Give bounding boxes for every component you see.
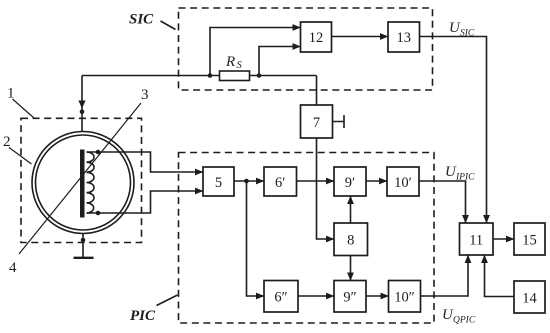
svg-text:9″: 9″ — [343, 290, 356, 306]
svg-text:1: 1 — [7, 86, 15, 102]
svg-text:2: 2 — [3, 134, 11, 150]
svg-text:5: 5 — [215, 175, 222, 191]
svg-text:11: 11 — [469, 233, 483, 249]
svg-text:3: 3 — [141, 87, 149, 103]
svg-text:12: 12 — [309, 30, 324, 46]
svg-text:QPIC: QPIC — [453, 316, 476, 326]
svg-text:SIC: SIC — [129, 12, 154, 28]
svg-text:PIC: PIC — [130, 308, 156, 324]
svg-text:14: 14 — [522, 291, 537, 307]
svg-text:6″: 6″ — [274, 290, 287, 306]
svg-text:7: 7 — [313, 115, 320, 131]
svg-text:10″: 10″ — [394, 290, 415, 306]
svg-text:4: 4 — [9, 260, 17, 276]
svg-text:6′: 6′ — [275, 175, 285, 191]
svg-text:8: 8 — [347, 233, 354, 249]
svg-text:10′: 10′ — [394, 175, 412, 191]
svg-text:IPIC: IPIC — [455, 173, 475, 183]
svg-text:SIC: SIC — [460, 29, 475, 39]
svg-text:15: 15 — [522, 233, 537, 249]
svg-text:S: S — [237, 60, 243, 71]
svg-text:9′: 9′ — [345, 175, 355, 191]
svg-text:13: 13 — [397, 30, 412, 46]
svg-text:R: R — [225, 54, 235, 70]
